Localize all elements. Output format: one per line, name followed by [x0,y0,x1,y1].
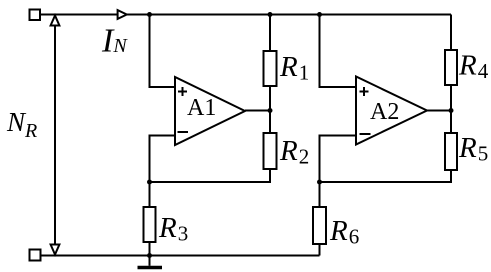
U1 minus pin mark [178,131,189,133]
wire A1 noninverting input [150,15,176,88]
measure line NR [54,24,56,246]
wire A2 output [427,110,451,112]
U1 plus pin mark [178,87,187,96]
U2 minus pin mark [360,133,371,135]
node A1 feedback [147,180,152,185]
node ground [147,253,152,258]
resistor R2 [150,111,271,183]
ground [149,256,151,266]
wire right drop to R4 [450,15,452,52]
U2 plus pin mark [360,87,369,96]
node A2 output [449,108,454,113]
svg-text:A2: A2 [370,99,399,125]
node A1 output [268,108,273,113]
node top R1 [268,12,273,17]
terminal T1 top-left [30,10,41,21]
resistor R1 [269,15,271,111]
node top A2 [317,12,322,17]
node A2 feedback [317,180,322,185]
node top A1 [147,12,152,17]
op-amp U2 A2 [356,77,427,145]
resistor R6 [319,182,321,256]
wire top rail [40,14,451,16]
op-amp U1 A1 [175,77,245,145]
svg-text:A1: A1 [187,95,216,121]
arrowhead down [51,245,60,255]
wire bottom rail [41,255,320,257]
arrowhead up [51,16,60,26]
resistor R4 [450,85,452,111]
terminal T2 bottom-left [30,250,41,261]
current arrow IN [118,10,127,19]
wire A1 inverting input [150,136,176,183]
wire A1 output [245,110,270,112]
resistor R3 [149,182,151,256]
wire A2 inverting input [320,136,357,183]
resistor R5 [320,111,452,183]
wire A2 noninverting input [320,15,357,88]
